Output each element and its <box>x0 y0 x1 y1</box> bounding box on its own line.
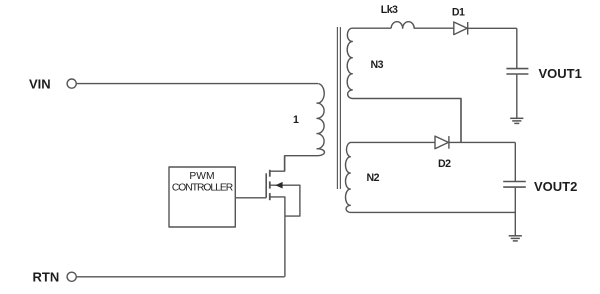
svg-text:VIN: VIN <box>29 76 51 91</box>
svg-text:VOUT1: VOUT1 <box>539 66 582 81</box>
svg-text:Lk3: Lk3 <box>381 4 398 16</box>
svg-text:VOUT2: VOUT2 <box>534 179 577 194</box>
svg-text:CONTROLLER: CONTROLLER <box>172 183 233 194</box>
svg-text:D2: D2 <box>438 158 451 170</box>
svg-text:N2: N2 <box>367 172 380 184</box>
svg-text:D1: D1 <box>452 6 465 18</box>
svg-text:RTN: RTN <box>33 270 60 285</box>
svg-text:N3: N3 <box>371 59 384 71</box>
svg-text:PWM: PWM <box>189 171 214 182</box>
svg-text:1: 1 <box>293 114 299 126</box>
